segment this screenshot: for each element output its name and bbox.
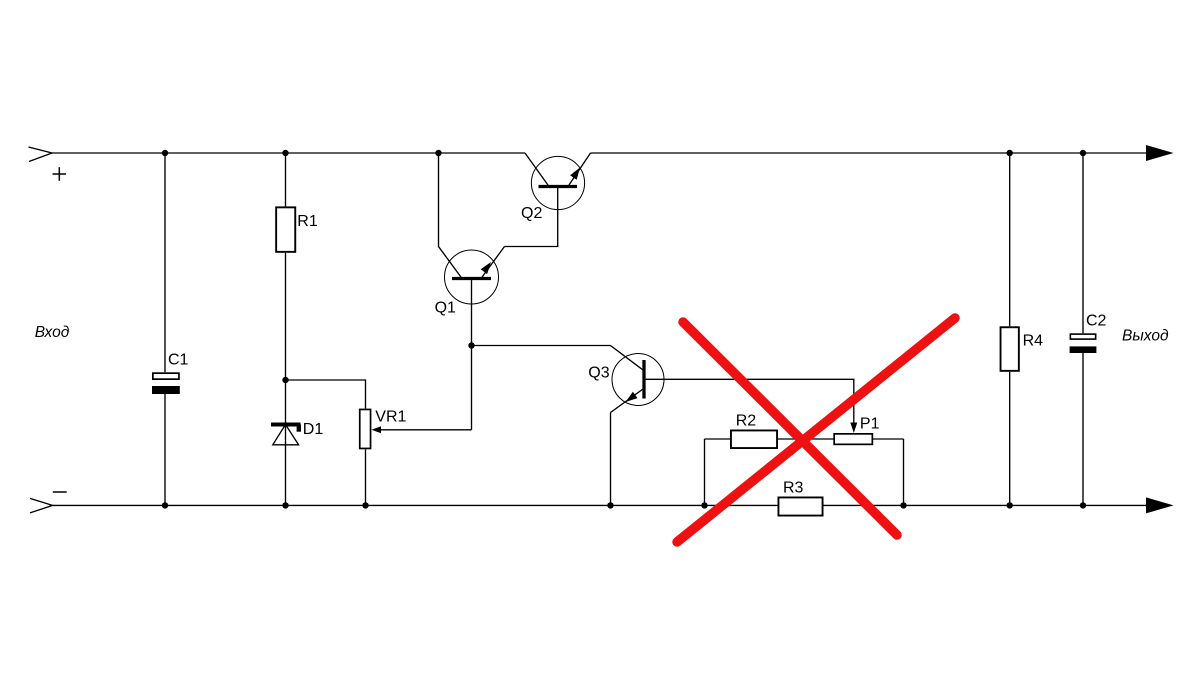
node P1 branch bottom xyxy=(900,502,906,508)
node C2 top xyxy=(1080,150,1086,156)
svg-text:P1: P1 xyxy=(860,415,880,432)
node Q1 collector top xyxy=(435,150,441,156)
wire R2 left branch down xyxy=(704,439,706,505)
wire Q1 emitter to Q2 base xyxy=(505,188,558,247)
node R1 top xyxy=(282,150,288,156)
wire VR1 wiper to Q1 base node xyxy=(471,346,473,430)
output terminal plus (filled arrow) xyxy=(1146,145,1174,161)
red cross-out stroke B xyxy=(677,318,955,542)
transistor Q1 xyxy=(435,153,505,346)
minus sign xyxy=(53,491,67,493)
node D1 top junction xyxy=(282,377,288,383)
svg-text:R3: R3 xyxy=(783,480,804,497)
node D1 bottom xyxy=(282,502,288,508)
svg-text:Q1: Q1 xyxy=(435,300,456,317)
svg-text:R1: R1 xyxy=(297,213,318,230)
wire P1 right branch down xyxy=(903,439,905,505)
wire bottom rail left segment xyxy=(53,504,778,506)
node R4 top xyxy=(1007,150,1013,156)
svg-text:Q2: Q2 xyxy=(521,205,542,222)
potentiometer VR1 xyxy=(360,408,472,505)
svg-text:R4: R4 xyxy=(1023,333,1044,350)
resistor R2 xyxy=(705,413,834,449)
wire top rail right segment xyxy=(591,152,1147,154)
svg-text:VR1: VR1 xyxy=(375,408,406,425)
input terminal plus (open arrow) xyxy=(29,147,53,162)
transistor Q3 xyxy=(588,346,664,506)
node VR1 bottom xyxy=(362,502,368,508)
plus sign xyxy=(53,167,67,181)
node Q3 emitter bottom xyxy=(607,502,613,508)
resistor R4 xyxy=(1001,153,1044,505)
node C1 bottom xyxy=(162,502,168,508)
node C2 bottom xyxy=(1080,502,1086,508)
svg-text:C2: C2 xyxy=(1086,313,1107,330)
resistor R1 xyxy=(276,153,318,380)
svg-text:Выход: Выход xyxy=(1122,328,1169,345)
transistor Q2 xyxy=(521,153,591,222)
svg-text:Вход: Вход xyxy=(35,324,70,341)
input terminal minus (open arrow) xyxy=(30,498,53,513)
capacitor C1 xyxy=(152,153,189,505)
output terminal minus (filled arrow) xyxy=(1146,497,1174,513)
svg-text:R2: R2 xyxy=(736,413,757,430)
zener diode D1 xyxy=(271,380,323,505)
potentiometer P1 xyxy=(834,415,903,444)
red cross-out stroke A xyxy=(683,322,897,535)
wire Q3 base to P1 wiper xyxy=(646,379,854,423)
node C1 top xyxy=(162,150,168,156)
node R4 bottom xyxy=(1007,502,1013,508)
svg-text:C1: C1 xyxy=(168,352,189,369)
wire D1 node to VR1 top xyxy=(286,380,366,409)
node Q1 base junction xyxy=(468,342,474,348)
svg-text:D1: D1 xyxy=(303,421,324,438)
wire Q1 base node to Q3 collector xyxy=(472,345,611,347)
resistor R3 xyxy=(778,480,822,516)
wire top rail left segment xyxy=(52,152,525,154)
svg-text:Q3: Q3 xyxy=(588,364,609,381)
node R2 branch bottom xyxy=(701,502,707,508)
capacitor C2 xyxy=(1070,153,1107,505)
wire bottom rail right segment xyxy=(824,504,1147,506)
